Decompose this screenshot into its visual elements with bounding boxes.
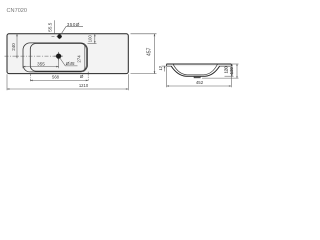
svg-text:55.5: 55.5: [48, 22, 53, 32]
svg-text:1210: 1210: [79, 83, 89, 88]
svg-text:17: 17: [158, 65, 163, 70]
svg-text:350Ø: 350Ø: [67, 22, 80, 27]
svg-text:240: 240: [11, 43, 16, 51]
svg-text:568: 568: [52, 74, 60, 79]
svg-text:Ø45: Ø45: [65, 61, 75, 66]
svg-text:120: 120: [223, 66, 228, 74]
svg-text:355: 355: [37, 61, 45, 66]
svg-text:457: 457: [147, 47, 153, 56]
svg-text:130: 130: [229, 67, 234, 75]
svg-text:Ø: Ø: [80, 74, 84, 79]
svg-text:452: 452: [196, 80, 204, 85]
svg-text:CN7020: CN7020: [7, 8, 28, 14]
svg-text:100: 100: [88, 35, 93, 43]
svg-text:274: 274: [76, 55, 81, 63]
